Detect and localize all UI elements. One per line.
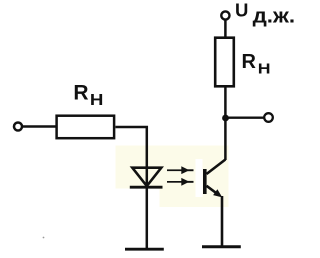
svg-text:H: H — [90, 91, 104, 109]
svg-text:д.ж.: д.ж. — [253, 4, 296, 27]
svg-text:R: R — [242, 51, 257, 73]
svg-text:U: U — [235, 0, 248, 20]
svg-text:R: R — [73, 81, 88, 104]
svg-text:H: H — [258, 61, 271, 77]
